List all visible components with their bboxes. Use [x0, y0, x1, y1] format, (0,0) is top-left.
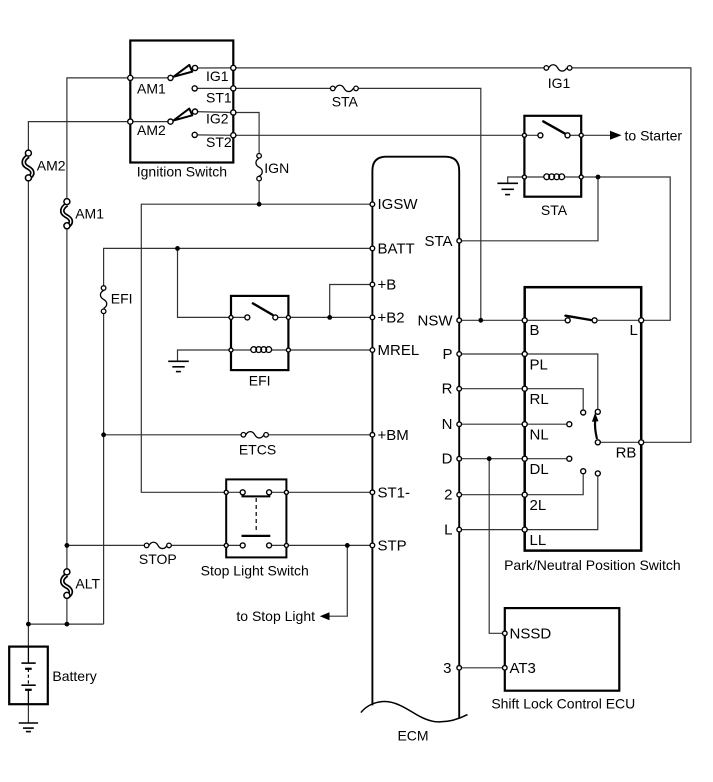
- svg-text:LL: LL: [530, 532, 547, 549]
- svg-text:ST1-: ST1-: [378, 484, 411, 501]
- svg-text:N: N: [442, 416, 453, 433]
- svg-text:RL: RL: [530, 391, 549, 408]
- svg-text:IG1: IG1: [548, 75, 571, 91]
- svg-text:AM1: AM1: [137, 81, 166, 97]
- svg-text:STOP: STOP: [139, 551, 177, 567]
- svg-text:Ignition Switch: Ignition Switch: [137, 163, 227, 179]
- svg-text:B: B: [530, 322, 540, 339]
- svg-text:2L: 2L: [530, 497, 547, 514]
- svg-text:+BM: +BM: [378, 427, 409, 444]
- svg-text:Stop Light Switch: Stop Light Switch: [201, 563, 309, 579]
- svg-text:+B: +B: [378, 277, 397, 294]
- svg-text:IGSW: IGSW: [378, 196, 419, 213]
- svg-text:IG1: IG1: [206, 68, 229, 84]
- svg-text:NL: NL: [530, 427, 549, 444]
- svg-text:IG2: IG2: [206, 111, 229, 127]
- svg-text:Park/Neutral Position Switch: Park/Neutral Position Switch: [504, 557, 681, 573]
- svg-text:ALT: ALT: [75, 576, 100, 592]
- svg-text:2: 2: [444, 487, 452, 504]
- svg-text:L: L: [444, 522, 452, 539]
- svg-text:MREL: MREL: [378, 342, 420, 359]
- svg-text:STP: STP: [378, 537, 407, 554]
- svg-text:NSW: NSW: [418, 312, 454, 329]
- svg-text:STA: STA: [541, 202, 568, 218]
- svg-text:AM1: AM1: [75, 206, 104, 222]
- svg-text:ST1: ST1: [206, 89, 232, 105]
- svg-text:R: R: [442, 381, 453, 398]
- svg-text:AM2: AM2: [137, 122, 166, 138]
- svg-text:EFI: EFI: [249, 373, 271, 389]
- svg-text:IGN: IGN: [264, 160, 289, 176]
- svg-text:AT3: AT3: [510, 660, 536, 677]
- svg-text:L: L: [630, 322, 638, 339]
- svg-text:ETCS: ETCS: [239, 441, 276, 457]
- svg-text:BATT: BATT: [378, 240, 415, 257]
- svg-text:NSSD: NSSD: [510, 625, 552, 642]
- svg-text:STA: STA: [332, 93, 359, 109]
- svg-text:to Stop Light: to Stop Light: [236, 608, 315, 624]
- svg-text:EFI: EFI: [111, 291, 133, 307]
- svg-text:ECM: ECM: [397, 728, 428, 744]
- svg-text:+B2: +B2: [378, 309, 405, 326]
- svg-text:STA: STA: [424, 233, 452, 250]
- svg-text:Battery: Battery: [52, 668, 96, 684]
- svg-text:AM2: AM2: [37, 157, 66, 173]
- svg-text:3: 3: [443, 660, 451, 677]
- svg-text:Shift Lock Control ECU: Shift Lock Control ECU: [491, 696, 635, 712]
- svg-text:RB: RB: [616, 445, 637, 462]
- svg-text:to Starter: to Starter: [625, 128, 683, 144]
- svg-text:D: D: [442, 451, 453, 468]
- svg-text:ST2: ST2: [206, 134, 232, 150]
- svg-text:DL: DL: [530, 461, 549, 478]
- svg-text:P: P: [442, 346, 452, 363]
- svg-text:PL: PL: [530, 357, 548, 374]
